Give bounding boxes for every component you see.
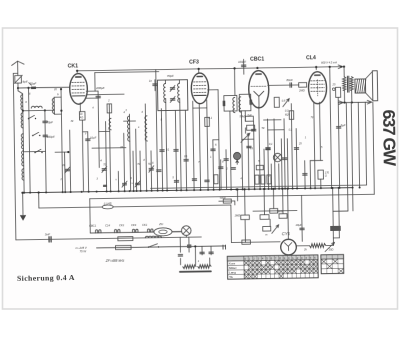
- svg-text:C14: C14: [105, 224, 110, 228]
- svg-text:8µF: 8µF: [341, 123, 346, 127]
- svg-text:∧: ∧: [138, 126, 140, 129]
- svg-text:25: 25: [119, 145, 124, 149]
- svg-text:50kΩ: 50kΩ: [277, 210, 283, 213]
- svg-text:70pF: 70pF: [167, 74, 174, 78]
- svg-text:25: 25: [331, 82, 336, 86]
- svg-text:200pF: 200pF: [46, 135, 55, 139]
- svg-text:AO: AO: [79, 115, 83, 119]
- svg-text:0.5: 0.5: [282, 99, 286, 103]
- svg-text:Mittel: Mittel: [229, 266, 237, 270]
- svg-text:5000: 5000: [220, 196, 226, 200]
- svg-text:CK1: CK1: [142, 223, 148, 227]
- svg-text:CK1: CK1: [68, 63, 79, 69]
- svg-text:35Ω: 35Ω: [329, 247, 334, 251]
- svg-text:1n: 1n: [149, 79, 153, 83]
- svg-text:10µF: 10µF: [90, 136, 97, 140]
- svg-text:0.3: 0.3: [285, 109, 289, 113]
- svg-text:50kΩ: 50kΩ: [239, 114, 245, 118]
- svg-text:CF3: CF3: [189, 60, 199, 66]
- svg-text:CBC1: CBC1: [250, 56, 264, 62]
- svg-text:100pF: 100pF: [238, 60, 246, 64]
- svg-text:637 GW: 637 GW: [379, 109, 400, 166]
- svg-text:0,1: 0,1: [269, 142, 273, 146]
- svg-text:80nF: 80nF: [286, 78, 293, 82]
- svg-text:TA: TA: [229, 275, 233, 279]
- svg-text:Kurz: Kurz: [229, 261, 236, 265]
- svg-text:CBC1: CBC1: [89, 224, 97, 228]
- svg-text:Lang: Lang: [229, 271, 236, 275]
- svg-text:75 W: 75 W: [80, 249, 87, 253]
- svg-text:Sicherung 0.4 A: Sicherung 0.4 A: [17, 273, 75, 283]
- svg-text:2MΩ: 2MΩ: [298, 88, 305, 92]
- svg-text:.7µF: .7µF: [246, 113, 252, 117]
- svg-text:200pF: 200pF: [95, 86, 105, 90]
- svg-text:CK1: CK1: [119, 223, 125, 227]
- svg-text:70pF: 70pF: [47, 120, 54, 124]
- svg-text:1MΩ: 1MΩ: [234, 213, 240, 217]
- svg-text:3nF: 3nF: [45, 232, 50, 236]
- svg-text:CF3: CF3: [131, 223, 137, 227]
- svg-text:0.1: 0.1: [208, 116, 212, 120]
- svg-text:600 V 4.3 mA: 600 V 4.3 mA: [321, 60, 337, 64]
- svg-text:5pF: 5pF: [22, 80, 27, 84]
- svg-text:R25: R25: [285, 113, 290, 117]
- svg-text:CL4: CL4: [306, 55, 316, 61]
- svg-text:ZF=488 kHz: ZF=488 kHz: [105, 258, 125, 262]
- svg-text:Ω: Ω: [325, 175, 327, 178]
- svg-text:CY1: CY1: [282, 231, 290, 236]
- svg-text:20µF: 20µF: [295, 223, 302, 227]
